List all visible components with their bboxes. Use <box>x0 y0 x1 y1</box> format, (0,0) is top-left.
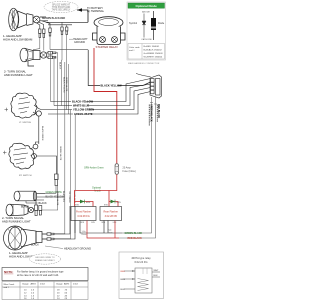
svg-text:BLACK-YELLOW: BLACK-YELLOW <box>101 84 123 88</box>
handlebar switch housing S1 <box>11 93 42 118</box>
label HEADLIGHT GROUND (upper) <box>69 38 88 44</box>
rear flasher box <box>100 207 122 221</box>
svg-text:HIGH AND LOW BEAM: HIGH AND LOW BEAM <box>3 38 33 42</box>
svg-text:Optional Diode: Optional Diode <box>136 4 158 8</box>
svg-text:LT. SWITCH: LT. SWITCH <box>19 122 31 124</box>
svg-text:NOTE:: NOTE: <box>4 270 13 274</box>
bullet connector (bottom headlamp b) <box>47 238 54 240</box>
connector J1 (main harness) <box>150 75 162 98</box>
svg-text:BRN: BRN <box>121 279 126 281</box>
flasher relay F1 (cylinder) <box>14 191 45 201</box>
headlamp LP1 (top left, high/low beam) <box>9 8 48 31</box>
bullet connector (headlamp feed 1) <box>39 29 41 38</box>
svg-text:AND RUNNING LIGHT: AND RUNNING LIGHT <box>2 220 31 224</box>
svg-text:BLACK: BLACK <box>58 62 61 70</box>
wire headlamp to battery line <box>46 22 85 25</box>
svg-text:BLACK: BLACK <box>31 244 39 247</box>
svg-text:RT. SWITCH: RT. SWITCH <box>19 175 32 177</box>
svg-text:AWG: AWG <box>64 282 69 285</box>
svg-text:YEL-GREEN: YEL-GREEN <box>68 191 70 203</box>
bullet connector pair (lower lamp) <box>34 205 42 216</box>
front flasher box <box>71 207 96 221</box>
svg-text:HEADLIGHT GROUND: HEADLIGHT GROUND <box>64 247 91 251</box>
wire flasher outputs <box>45 186 65 197</box>
svg-text:mm2: mm2 <box>40 283 46 285</box>
svg-text:Fuse (Inline): Fuse (Inline) <box>123 170 136 173</box>
svg-text:R=RED 1N4001: R=RED 1N4001 <box>144 46 161 48</box>
label pin tags (box bottoms) <box>81 222 118 224</box>
svg-text:FRAME SECURELY: FRAME SECURELY <box>35 259 55 262</box>
bullet connector pair (flasher feed) <box>55 174 59 186</box>
svg-text:GREEN-WHITE: GREEN-WHITE <box>56 191 58 206</box>
turn signal lamp LP2 (top) <box>20 48 48 66</box>
pin BRN <box>124 278 135 280</box>
svg-text:AND RUNNING LIGHT: AND RUNNING LIGHT <box>4 73 33 77</box>
battery feed arrow <box>77 8 88 22</box>
wire gauge table <box>2 282 88 300</box>
bullet connector (turn lamp lead b) <box>48 56 56 59</box>
note box <box>2 268 88 281</box>
wire flasher red outputs <box>87 221 119 239</box>
svg-text:BLK: BLK <box>121 289 126 291</box>
svg-text:WHITE-BLUE: WHITE-BLUE <box>73 104 90 108</box>
svg-text:3.02.28 FB: 3.02.28 FB <box>105 215 118 218</box>
svg-text:GREEN-BLACK: GREEN-BLACK <box>150 104 153 122</box>
pin RED <box>124 270 135 272</box>
wire flasher box outputs <box>75 221 122 234</box>
svg-text:Color code: Color code <box>129 46 140 49</box>
headlamp LP3 (bottom) <box>4 226 48 250</box>
svg-text:3.02.08 FG: 3.02.08 FG <box>77 215 90 218</box>
wire headlamp leads to connectors <box>37 21 51 29</box>
wire feed taps <box>62 22 67 27</box>
turn signal lamp LP4 (bottom) <box>6 204 34 216</box>
svg-text:GREEN-WHITE: GREEN-WHITE <box>59 146 61 161</box>
callout note (dashed oval, bottom) <box>30 254 61 264</box>
bullet connector (bottom headlamp a) <box>47 233 54 235</box>
svg-text:Front Flasher: Front Flasher <box>76 211 91 214</box>
svg-text:B=BLACK 1N4002: B=BLACK 1N4002 <box>144 49 163 52</box>
wire bus row 3 <box>41 88 151 110</box>
svg-text:RED-BLACK: RED-BLACK <box>128 237 142 240</box>
svg-text:BLACK: BLACK <box>39 202 48 205</box>
node cross (switch 1) <box>5 108 9 112</box>
svg-text:THIS POINT AND: THIS POINT AND <box>52 6 71 9</box>
wire bus black-yellow (relay to connector) <box>88 50 150 86</box>
callout note (dashed oval, splice note) <box>44 1 78 12</box>
svg-text:and #: and # <box>4 287 10 289</box>
wire switch2 leads <box>36 142 57 174</box>
bullet connector (turn lamp lead a) <box>48 52 56 55</box>
bullet connector (headlamp feed 2) <box>43 29 45 38</box>
svg-text:RED: RED <box>121 271 126 273</box>
svg-text:and #: and # <box>129 50 135 52</box>
wire verticals from top components <box>33 35 68 115</box>
svg-text:Gauge: Gauge <box>56 283 63 285</box>
svg-text:BLK: BLK <box>154 275 159 277</box>
wire red main feed <box>94 48 117 165</box>
diode D2 (optional, green) <box>111 200 116 204</box>
pin BLK <box>152 276 160 278</box>
svg-text:BLACK-YELLOW: BLACK-YELLOW <box>72 100 94 104</box>
svg-text:Beam: Beam <box>82 234 88 236</box>
svg-text:GREEN-WHITE: GREEN-WHITE <box>74 112 93 116</box>
wire bus row 4 <box>48 92 151 115</box>
bullet connector (headlamp feed 3) <box>49 28 51 36</box>
svg-text:YELLOW-GREEN: YELLOW-GREEN <box>73 108 94 112</box>
label HEADLIGHT GROUND (lower) <box>45 246 91 251</box>
node cross (switch 2) <box>3 151 7 155</box>
pin WHT <box>152 271 160 273</box>
svg-text:WHT: WHT <box>154 270 160 272</box>
starter relay K1 <box>93 17 126 45</box>
wire red distribution to flashers <box>75 175 119 207</box>
svg-text:SPLICE WIRE AT: SPLICE WIRE AT <box>52 3 71 6</box>
svg-text:BLACK-YEL: BLACK-YEL <box>62 191 65 203</box>
wire connector down pair <box>119 97 157 238</box>
svg-text:GROUND WIRE TO: GROUND WIRE TO <box>35 257 55 259</box>
svg-text:(+) TERMINAL: (+) TERMINAL <box>87 9 105 13</box>
color code table <box>128 44 165 60</box>
svg-text:6.02.24 FG: 6.02.24 FG <box>135 260 148 264</box>
svg-text:GREEN-BLACK: GREEN-BLACK <box>125 232 143 235</box>
handlebar switch housing S2 <box>9 143 38 169</box>
svg-text:GREEN-WHITE: GREEN-WHITE <box>65 77 67 92</box>
svg-text:mm2: mm2 <box>73 283 79 285</box>
svg-text:GRN-Amber Green: GRN-Amber Green <box>84 167 104 170</box>
wire bottom headlamp leads <box>36 200 75 239</box>
svg-text:BRN: BRN <box>117 202 122 204</box>
svg-text:STARTER RELAY: STARTER RELAY <box>96 45 119 49</box>
bullet connector (feed tap 2) <box>66 27 68 35</box>
relay K2 internal <box>135 268 152 293</box>
optional diode panel <box>127 2 166 60</box>
wire mid verticals to lower section <box>41 102 75 239</box>
wire flasher ground <box>26 201 38 203</box>
svg-text:4007A type relay: 4007A type relay <box>131 256 151 260</box>
svg-text:Wire Cond.: Wire Cond. <box>4 283 15 286</box>
svg-text:BLACK-GREEN: BLACK-GREEN <box>41 126 44 141</box>
diode symbol (schematic) <box>142 14 146 38</box>
svg-text:AWG: AWG <box>31 282 36 285</box>
diode component (physical) <box>151 11 156 40</box>
svg-text:BLACK-YELLOW: BLACK-YELLOW <box>63 77 66 93</box>
svg-text:W=WHITE 1N4004: W=WHITE 1N4004 <box>144 57 163 59</box>
svg-text:G=GREEN 1N4003: G=GREEN 1N4003 <box>144 53 164 55</box>
svg-text:Beam: Beam <box>108 232 114 234</box>
wire relay ground (to headlamp) <box>50 49 88 51</box>
svg-text:at the case is 12 volt 21 watt: at the case is 12 volt 21 watt each bulb… <box>17 274 59 277</box>
fuse F2 20A (inline) <box>115 164 119 175</box>
svg-text:Symbol: Symbol <box>129 22 137 25</box>
wire bus row 1 <box>51 79 151 102</box>
svg-text:Rear Flasher: Rear Flasher <box>103 211 118 214</box>
svg-text:MAIN HARNESS CONNECTOR: MAIN HARNESS CONNECTOR <box>128 62 160 65</box>
wire bus row 2 <box>54 84 151 106</box>
wire switch1 leads <box>34 105 41 144</box>
svg-text:Anode: Anode <box>94 190 102 193</box>
diode D1 (optional, green) <box>80 200 85 204</box>
svg-text:TAPE SECURELY: TAPE SECURELY <box>52 9 71 12</box>
svg-text:GROUND: GROUND <box>74 41 85 44</box>
wire fan extra strands <box>136 74 151 77</box>
pin BLK <box>124 288 135 290</box>
bullet connector (feed tap 1) <box>61 27 63 35</box>
svg-text:Gauge: Gauge <box>22 283 29 285</box>
svg-text:Diode: Diode <box>158 22 165 25</box>
svg-text:BRN: BRN <box>86 202 91 204</box>
relay detail box (bottom right) <box>119 252 164 299</box>
svg-text:BROWN BLACK-RED: BROWN BLACK-RED <box>42 17 66 20</box>
svg-text:ANODE: ANODE <box>142 11 150 14</box>
svg-text:CATHODE: CATHODE <box>141 38 152 41</box>
